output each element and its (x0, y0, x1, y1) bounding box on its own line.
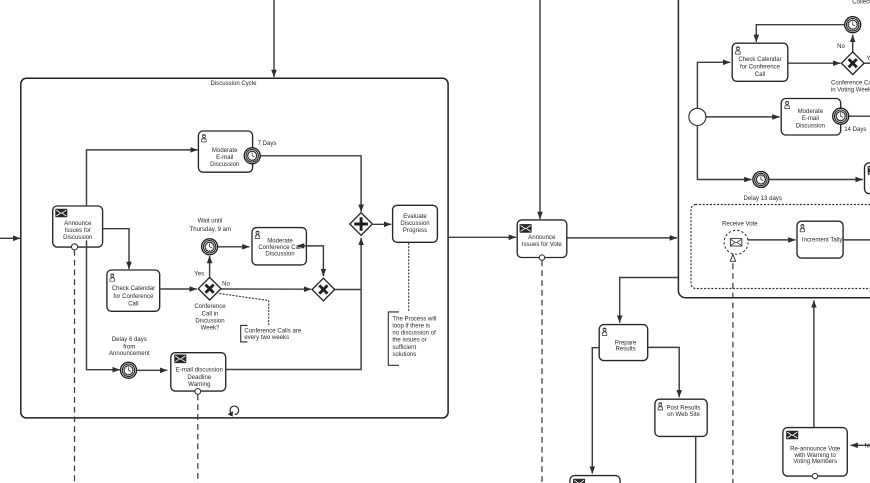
node: message circle under Announce Issues for Discussion (71, 244, 77, 250)
svg-text:Progress: Progress (403, 228, 427, 234)
svg-text:Announce: Announce (64, 221, 92, 227)
svg-text:Conference Calls are: Conference Calls are (244, 329, 301, 335)
wire: gateway right edge exit (864, 62, 870, 64)
svg-text:Prepare: Prepare (615, 340, 637, 346)
boundary timer 7 Days on T2 (244, 148, 260, 164)
svg-text:Discussion: Discussion (63, 235, 92, 241)
message flow dashed down from Announce Issues for Discussion (74, 250, 76, 483)
message flow dashed down from Announce Issues for Vote (541, 261, 543, 483)
task bottom left (clipped) (570, 476, 620, 483)
svg-text:Warning: Warning (188, 382, 210, 388)
svg-text:E-mail: E-mail (216, 155, 233, 161)
svg-text:no discussion of: no discussion of (392, 331, 436, 337)
svg-text:Evaluate: Evaluate (403, 214, 427, 220)
svg-text:with Warning to: with Warning to (793, 453, 836, 459)
node: message circle under Deadline Warning (195, 389, 201, 395)
svg-text:Results: Results (616, 347, 636, 353)
timer Delay 13 days (753, 172, 769, 188)
node: message circle under Re-announce Vote (812, 473, 817, 478)
wire: gateway No up to timer (852, 35, 854, 53)
wire: Check Calendar to gateway (160, 288, 197, 290)
svg-text:for Conference: for Conference (740, 65, 781, 71)
wire: Moderate Conference Call to join gateway (306, 246, 323, 276)
svg-text:Week?: Week? (201, 326, 220, 332)
wire: 7-day timer to parallel gateway (260, 156, 361, 212)
wire: gateway No to join gateway (221, 288, 311, 290)
message flow dashed down from Receive Vote (732, 263, 734, 483)
event subprocess Receive Vote (dotted) (691, 205, 870, 289)
svg-text:Conference Call: Conference Call (258, 245, 301, 251)
annotation Conference Calls are every two weeks (241, 325, 302, 342)
wire: 14 day timer right exit (849, 115, 870, 117)
task Moderate E-mail Discussion (Collect Votes) (781, 99, 841, 136)
svg-text:Discussion Cycle: Discussion Cycle (210, 81, 257, 87)
wire: Post Results down exit (695, 436, 697, 483)
wire: into Discussion Cycle from left (0, 237, 20, 239)
svg-text:Discussion: Discussion (796, 124, 825, 130)
wire: Announce down to Delay 6 days timer (87, 240, 120, 369)
task T5 E-mail discussion Deadline Warning (171, 353, 226, 391)
wire: Delay 6 days timer to E-mail discussion Deadline Warning (136, 369, 167, 371)
svg-text:Wait until: Wait until (198, 218, 223, 224)
wire: Prepare Results down to bottom task (592, 348, 599, 474)
wire: Deadline Warning to join line (226, 238, 361, 370)
timer top (loop back) (845, 17, 861, 33)
svg-text:Issues for Vote: Issues for Vote (522, 242, 563, 248)
boundary timer 14 Days (833, 108, 849, 124)
wire: Announce to Check Calendar for Conference Call (103, 229, 129, 269)
svg-text:E-mail discussion: E-mail discussion (176, 368, 223, 374)
svg-text:Moderate: Moderate (212, 148, 238, 154)
subprocess Collect Votes (678, 0, 870, 298)
wire: fork down to Delay 13 days timer (697, 126, 751, 180)
wire: Announce Issues for Vote to Collect Votes (567, 237, 677, 239)
task T3 Check Calendar for Conference Call (107, 270, 160, 311)
loop marker (228, 406, 239, 417)
svg-text:Discussion: Discussion (265, 252, 294, 258)
task at right edge (clipped) (865, 163, 870, 194)
task Post Results on Web Site (655, 399, 707, 436)
svg-text:Yes: Yes (194, 271, 204, 277)
svg-text:Conference Call: Conference Call (831, 81, 870, 87)
svg-text:Call: Call (128, 302, 138, 308)
task Check Calendar for Conference Call (Collect Votes) (732, 43, 788, 81)
svg-text:Yes: Yes (867, 56, 870, 62)
task T1 Announce Issues for Discussion (53, 206, 103, 247)
svg-text:Deadline: Deadline (187, 375, 212, 381)
svg-text:Call: Call (755, 72, 765, 78)
svg-text:Voting Members: Voting Members (793, 459, 837, 465)
svg-text:Collect Votes: Collect Votes (852, 0, 870, 6)
association gateway to annotation Conference Calls (220, 294, 269, 325)
task Prepare Results (599, 325, 648, 361)
svg-text:Discussion: Discussion (400, 221, 429, 227)
wire: Wait timer to Moderate Conference Call Discussion (218, 246, 250, 248)
wire: Prepare Results to Post Results on Web Site (648, 347, 680, 397)
gateway join (exclusive) (312, 278, 335, 301)
node: message circle under Announce Issues for Vote (539, 255, 544, 260)
task T2 Moderate E-mail Discussion (198, 131, 252, 172)
svg-text:for Conference: for Conference (113, 294, 154, 300)
svg-text:E-mail: E-mail (802, 116, 819, 122)
event: Receive Vote message start (dashed circle) (724, 230, 748, 254)
svg-text:Announcement: Announcement (109, 351, 150, 357)
annotation The Process will loop... (388, 312, 436, 365)
gateway Conference Call in Discussion Week? (198, 277, 221, 300)
task T6 Evaluate Discussion Progress (393, 205, 438, 242)
wire: Announce to Moderate E-mail Discussion (87, 150, 198, 206)
message flow open arrow into Receive Vote (730, 254, 735, 261)
wire: into Discussion Cycle from top (273, 0, 275, 77)
wire: join gateway right to parallel gateway (335, 289, 362, 291)
svg-text:No: No (865, 443, 870, 449)
wire: Increment Tally right exit (843, 239, 870, 241)
wire: fork right to Moderate E-mail Discussion (706, 116, 780, 118)
svg-text:Receive Vote: Receive Vote (722, 221, 758, 227)
svg-text:Post Results: Post Results (667, 406, 701, 412)
wire: into Announce Issues for Vote from top (539, 0, 541, 219)
wire: timer left and down into Check Calendar (756, 25, 844, 42)
svg-text:Moderate: Moderate (267, 239, 293, 245)
timer Delay 6 days from Announcement (121, 362, 137, 378)
svg-text:Check Calendar: Check Calendar (112, 286, 155, 292)
svg-text:Thursday, 9 am: Thursday, 9 am (190, 227, 232, 233)
svg-text:Moderate: Moderate (798, 109, 824, 115)
svg-text:in Voting Week?: in Voting Week? (831, 87, 870, 93)
svg-text:solutions: solutions (392, 352, 416, 358)
svg-text:from: from (123, 345, 135, 351)
svg-text:every two weeks: every two weeks (244, 335, 289, 341)
svg-text:Re-announce Vote: Re-announce Vote (790, 447, 841, 453)
wire: Collect Votes to Prepare Results (620, 278, 679, 323)
wire: arrow into Moderate Conference Call from right (297, 245, 307, 247)
svg-text:Call in: Call in (202, 311, 219, 317)
wire: Re-announce Vote up into Collect Votes (813, 300, 815, 427)
svg-text:Delay 6 days: Delay 6 days (112, 337, 147, 343)
svg-text:14 Days: 14 Days (844, 127, 866, 133)
svg-text:loop if there is: loop if there is (392, 323, 430, 329)
svg-text:the issues or: the issues or (392, 338, 426, 344)
node: start circle of Collect Votes (689, 108, 706, 125)
svg-text:Delay 13 days: Delay 13 days (744, 196, 782, 202)
wire: Check Calendar to gateway Voting Week (788, 62, 841, 64)
task Increment Tally (797, 221, 843, 258)
wire: Delay 13 days to reminder task (769, 179, 863, 181)
svg-text:Discussion: Discussion (210, 162, 239, 168)
svg-text:No: No (222, 282, 230, 288)
svg-text:Increment Tally: Increment Tally (802, 238, 844, 244)
wires inside Collect Votes: fork up to Check Calendar (697, 62, 730, 108)
wire: Discussion Cycle to Announce Issues for Vote (448, 236, 516, 238)
association Evaluate to annotation (408, 243, 410, 310)
svg-text:on Web Site: on Web Site (667, 412, 700, 418)
wire: receive vote event to Increment Tally (743, 239, 796, 241)
gateway parallel (350, 213, 373, 236)
subprocess Discussion Cycle (21, 78, 448, 418)
wire: parallel gateway to Evaluate Discussion Progress (372, 223, 391, 225)
svg-text:Conference: Conference (194, 304, 226, 310)
svg-text:Discussion: Discussion (195, 319, 224, 325)
svg-text:Check Calendar: Check Calendar (738, 57, 781, 63)
svg-text:sufficient: sufficient (392, 345, 416, 351)
gateway Conference Call in Voting Week? (841, 52, 864, 75)
task Announce Issues for Vote (517, 220, 567, 258)
svg-text:No: No (837, 44, 845, 50)
message flow dashed down from Deadline Warning (197, 395, 199, 483)
task T4 Moderate Conference Call Discussion (252, 228, 306, 265)
task Re-announce Vote with Warning to Voting Members (783, 428, 847, 477)
timer Wait until Thursday 9 am (202, 239, 218, 255)
svg-text:Issues for: Issues for (65, 228, 91, 234)
svg-text:Announce: Announce (528, 235, 556, 241)
wire: No into Re-announce Vote from right (851, 444, 870, 446)
wire: gateway Yes up to Wait timer (209, 256, 211, 277)
svg-text:The Process will: The Process will (392, 316, 436, 322)
svg-text:7 Days: 7 Days (258, 141, 277, 147)
